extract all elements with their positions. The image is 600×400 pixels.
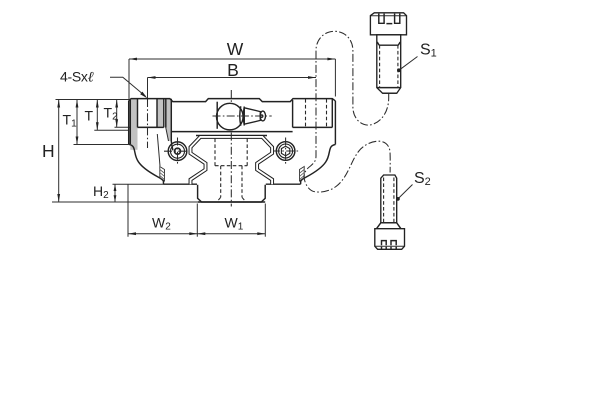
dimension T1 (63, 100, 129, 145)
bore top line (196, 135, 267, 137)
counterbore hole edges (137, 99, 139, 128)
nipple cone (244, 108, 260, 124)
S2 head (375, 229, 405, 250)
bore internal line upper (172, 131, 293, 133)
block top profile (129, 99, 336, 102)
svg-text:T: T (85, 108, 94, 124)
left cove curve (129, 144, 164, 184)
end cap screw circle right (272, 138, 299, 165)
rail bolt hole hidden counterbore (215, 139, 247, 202)
svg-text:4-Sxℓ: 4-Sxℓ (60, 69, 94, 86)
S2 socket (382, 241, 397, 250)
block bottom edges (164, 183, 198, 185)
hole centerline left (147, 99, 149, 148)
rail base below block (198, 185, 266, 202)
nipple ball (217, 103, 244, 130)
nipple neck rings (239, 106, 242, 125)
nipple centerline (213, 115, 272, 117)
block right edge (334, 101, 336, 145)
nipple tip (260, 111, 265, 121)
gray section band 1 (130, 99, 137, 150)
rail bottom line (198, 201, 266, 203)
dimension W2 (128, 185, 197, 237)
S1 shank (377, 35, 401, 93)
gray section band 2 (157, 99, 164, 128)
right cove curve (301, 145, 336, 185)
hidden hole right (305, 99, 307, 127)
right end section (293, 99, 333, 128)
S1 socket (379, 14, 400, 24)
dimension T (85, 100, 129, 131)
label 4-Sxl with leader (60, 69, 147, 99)
counterbore step (138, 126, 164, 128)
rail profile double line (191, 137, 273, 184)
dimension W (129, 39, 335, 100)
rail vertical centerline (230, 90, 232, 207)
svg-text:H: H (42, 141, 55, 161)
block top extension line (56, 99, 129, 101)
gray section band 3 (166, 99, 172, 141)
S2 thread hidden lines (383, 178, 385, 223)
dimension H2 (93, 183, 164, 202)
end cap screw circle left (164, 138, 191, 165)
right hatched strip (300, 167, 305, 182)
S2 shank (381, 175, 397, 223)
S1 head (370, 13, 406, 35)
dimension T2 (104, 100, 158, 128)
dimension W1 (197, 204, 265, 237)
svg-text:B: B (227, 60, 239, 80)
block left edge (128, 101, 130, 145)
rail bottom extension line (52, 201, 197, 203)
svg-text:W: W (227, 39, 244, 59)
dimension H (42, 100, 60, 203)
left hatched strip (160, 167, 165, 182)
dimension B (148, 60, 317, 99)
S1 thread hidden lines (379, 45, 381, 87)
